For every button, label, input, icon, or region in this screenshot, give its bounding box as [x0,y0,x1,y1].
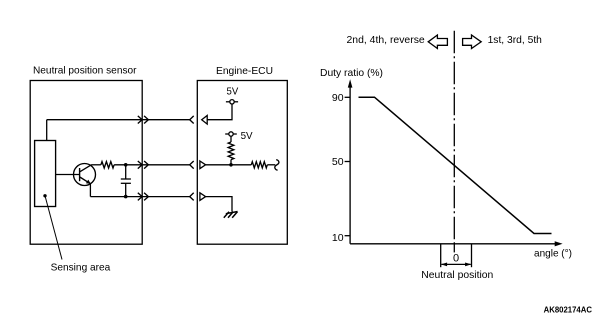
svg-text:10: 10 [332,232,344,244]
svg-text:2nd, 4th, reverse: 2nd, 4th, reverse [347,34,425,46]
wire: ECU ground wire to chassis ground [206,197,232,212]
neutral range double arrow [442,263,471,265]
resistor R2 (pull-up) [228,142,234,160]
duty ratio curve [359,97,552,233]
connector chevron pair (sensor side, middle wire) [138,161,142,169]
capacitor C1 bottom lead [125,183,127,196]
capacitor C1 top lead [125,165,127,179]
wire: R1 to sensor output connector (middle wire) [114,164,142,166]
svg-text:1st, 3rd, 5th: 1st, 3rd, 5th [488,34,542,46]
y-axis [349,84,351,244]
tick 10 [345,235,351,237]
wire: top 5V supply line inside sensor to connector [47,119,143,121]
tick 90 [345,96,351,98]
svg-text:5V: 5V [241,130,253,142]
svg-text:AK802174AC: AK802174AC [544,304,592,314]
transistor Q1 (hall IC output, NPN) [74,164,96,186]
svg-text:5V: 5V [227,86,239,98]
5V terminal circle (top) [230,100,234,104]
svg-text:angle (°): angle (°) [534,247,572,259]
node: capacitor bottom junction [124,195,128,199]
wire: R3 to break squiggle [267,164,275,166]
resistor R2 pull-up lead [230,136,232,142]
5V terminal circle (pull-up) [229,132,233,136]
wire: ground harness wire [142,196,190,198]
neutral range right boundary [471,244,473,267]
node: capacitor top junction [124,163,128,167]
sensing area element (hall element rectangle) [35,141,56,207]
outline arrow left (2nd,4th,reverse direction) [428,35,447,49]
connector female chevron (ECU side, top wire) [190,116,194,124]
wire: middle harness wire [142,164,190,166]
capacitor C1 plates [121,178,131,180]
transistor Q1 collector stroke [80,165,92,172]
tick 50 [345,161,351,163]
sensor box (Neutral position sensor) [30,81,142,245]
connector female chevron (ECU side, middle wire) [190,161,194,169]
connector chevron pair (sensor side, top wire) [138,116,142,124]
transistor Q1 base bar [79,168,81,181]
ECU box (Engine-ECU) [197,81,287,245]
x-axis arrowhead [555,241,563,246]
svg-text:Duty ratio (%): Duty ratio (%) [320,67,383,79]
ECU pin triangle (top wire, output) [202,116,208,125]
outline arrow right (1st,3rd,5th direction) [463,35,482,49]
leader line to Sensing area label [45,196,62,260]
svg-text:Neutral position sensor: Neutral position sensor [33,65,137,77]
svg-text:90: 90 [332,92,344,104]
center dash-dot line (neutral axis) [453,31,455,244]
wire: sensing element to 5V supply line (vertical) [46,120,48,141]
neutral range left boundary [440,244,442,267]
wire: top harness wire between connectors [142,119,190,121]
connector female chevron (ECU side, ground wire) [190,193,194,201]
ground (chassis) [224,212,238,218]
wire: ECU top wire to 5V terminal [207,104,232,120]
resistor R3 (series into ECU) [251,162,267,168]
svg-text:Neutral position: Neutral position [421,269,493,281]
wire: emitter/ground line inside sensor [90,196,142,198]
leader dot inside sensing area [43,194,46,197]
svg-text:Sensing area: Sensing area [51,262,111,274]
y-axis arrowhead [348,79,353,87]
svg-text:50: 50 [332,156,344,168]
resistor R2 bottom lead [230,160,232,165]
transistor Q1 emitter stroke with arrow [80,177,90,183]
ECU pin triangle (middle wire, input) [200,161,206,169]
svg-text:0: 0 [453,253,459,265]
resistor R1 (in-sensor series resistor) [101,162,114,168]
ECU pin triangle (ground wire) [200,193,206,201]
svg-text:Engine-ECU: Engine-ECU [216,65,273,77]
wire: collector to resistor R1 [92,164,101,166]
connector chevron pair (sensor side, ground wire) [138,193,142,201]
break squiggle (circuit continues) [275,160,279,171]
wire: ECU middle wire [206,164,252,166]
wire: sensing element to base of Q1 [56,174,80,176]
node: pull-up junction [229,163,233,167]
wire: emitter down to ground line [89,184,91,197]
x-axis [350,243,556,245]
